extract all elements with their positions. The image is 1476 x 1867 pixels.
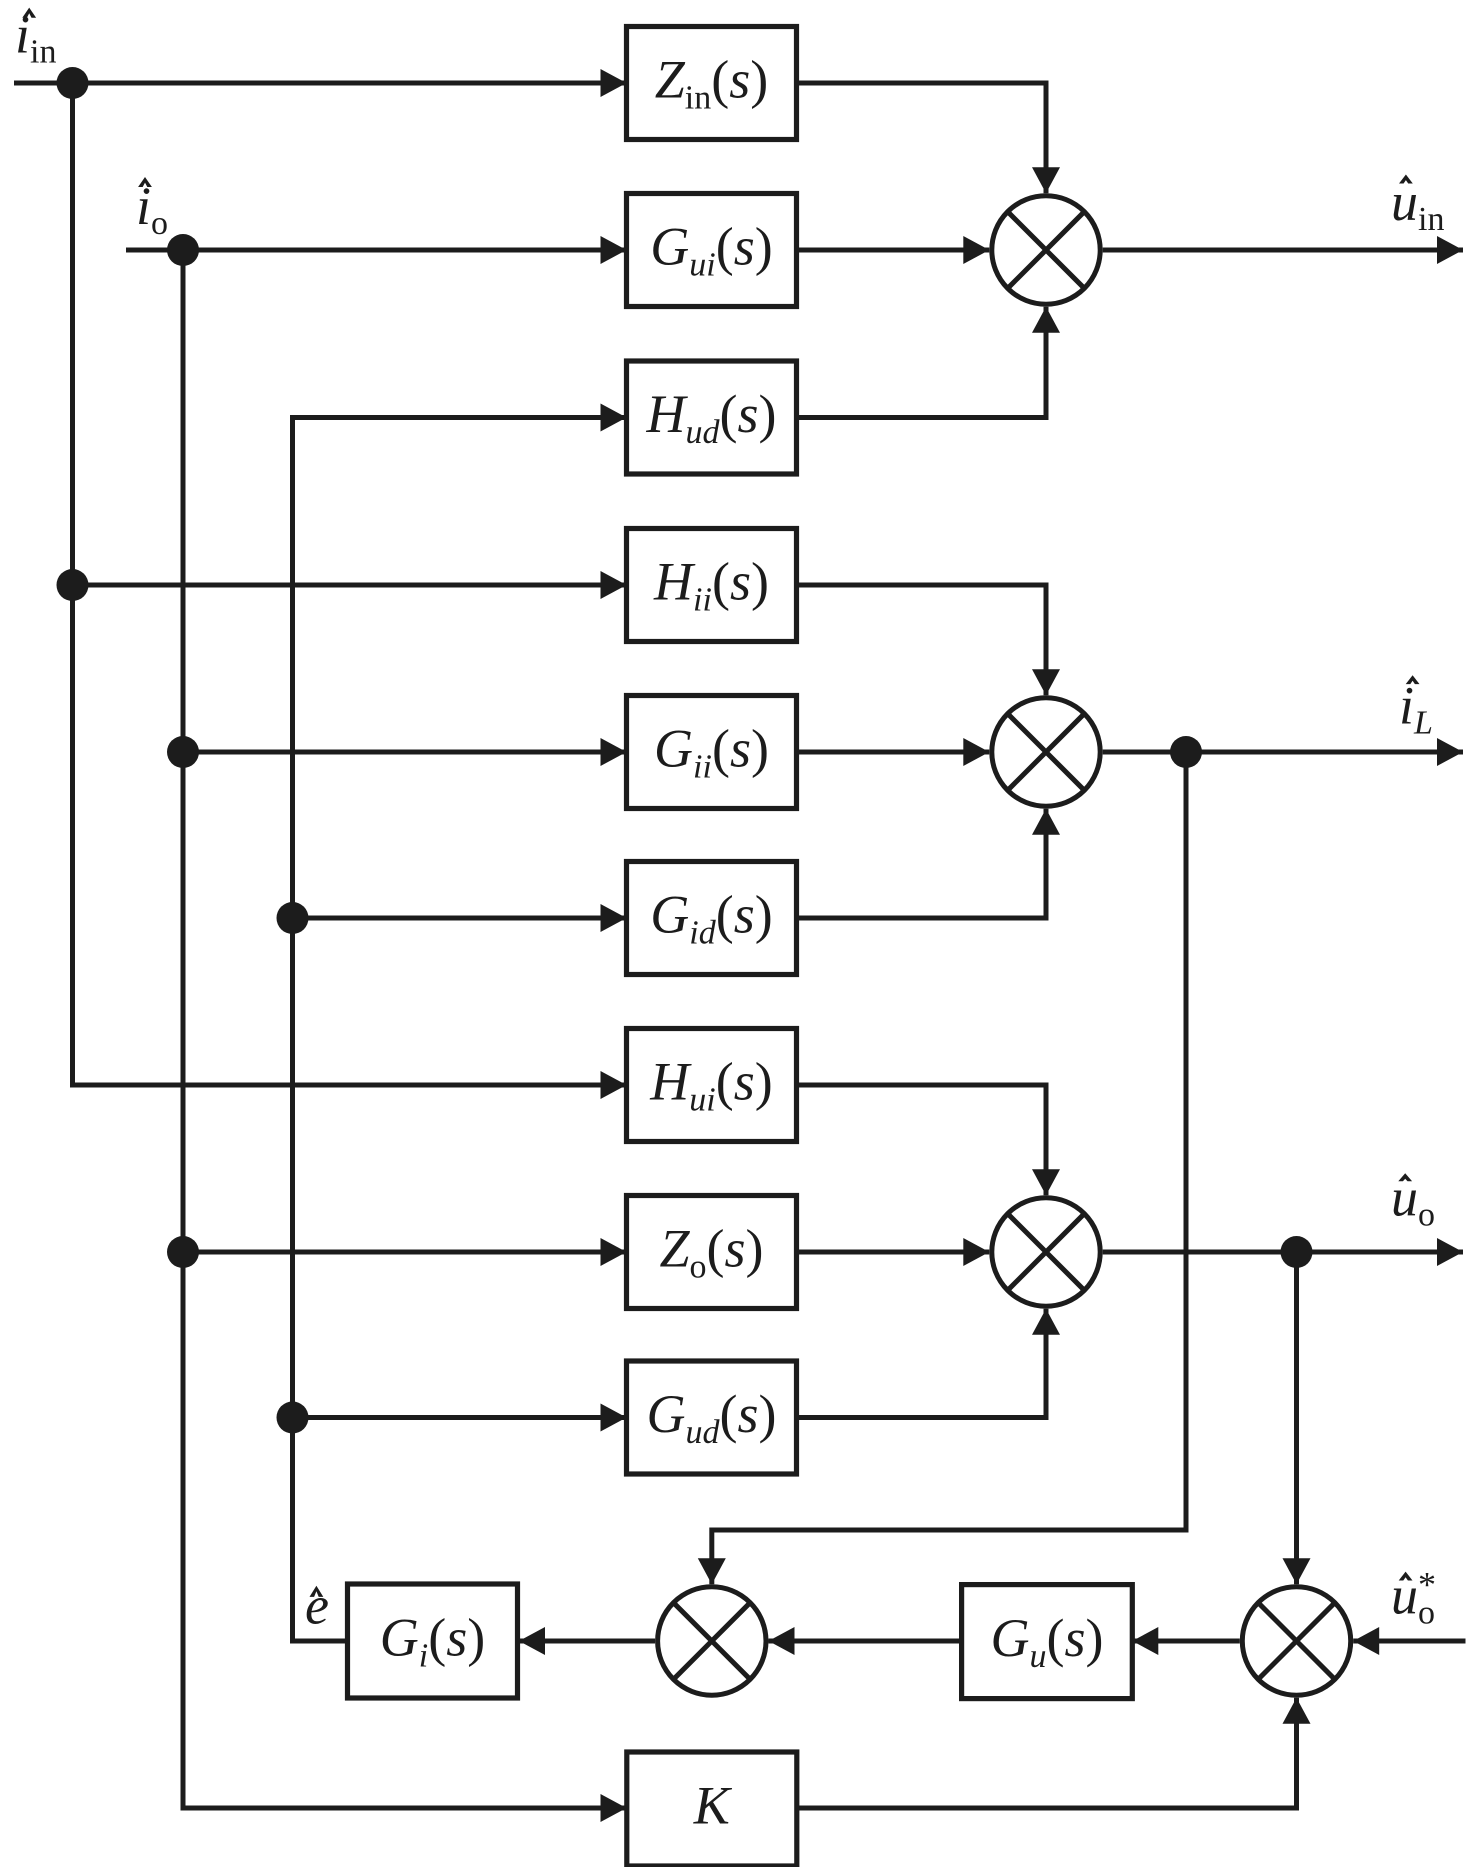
- wire u_o_ref input to S5 right: [1353, 1627, 1465, 1655]
- summing junction S5 voltage error: [1242, 1587, 1350, 1695]
- block H_ii(s): [627, 529, 797, 642]
- wire G_ud output to S3 bottom: [797, 1309, 1061, 1418]
- block G_ud(s): [627, 1361, 797, 1474]
- label i_in input signal: [15, 5, 56, 71]
- svg-text:Gi(s): Gi(s): [380, 1608, 485, 1675]
- summing junction S3 u_o: [992, 1198, 1100, 1306]
- wire Z_in output to S1 top: [797, 83, 1061, 193]
- label i_L output signal: [1399, 675, 1433, 741]
- node e_hat to G_ud tap: [277, 1402, 309, 1434]
- wire Z_o output to S3 left: [797, 1238, 990, 1266]
- wire i_in input to Z_in: [14, 69, 627, 97]
- wire S2 output i_L: [1103, 738, 1463, 766]
- label e_hat error signal: [305, 1575, 329, 1635]
- wire S3 output u_o: [1103, 1238, 1463, 1266]
- wire K output to S5 bottom: [797, 1698, 1311, 1808]
- block H_ui(s): [627, 1029, 797, 1142]
- block G_i(s) current controller: [348, 1584, 518, 1698]
- wire i_L feedback to S4 top: [698, 752, 1186, 1584]
- block Z_in(s): [627, 27, 797, 140]
- block K gain: [627, 1752, 797, 1866]
- wire H_ui output to S3 top: [797, 1085, 1061, 1195]
- label i_o input signal: [136, 176, 168, 242]
- wire S4 output to G_i: [519, 1627, 655, 1655]
- node i_in to H_ii tap: [57, 569, 89, 601]
- label u_o_ref reference signal: [1391, 1565, 1436, 1632]
- wire G_ui output to S1 left: [797, 236, 990, 264]
- block G_ui(s): [627, 194, 797, 307]
- wire G_u output to S4 right: [769, 1627, 962, 1655]
- wire e_hat trunk G_i output to H_ud: [293, 404, 627, 1642]
- label u_o output signal: [1391, 1168, 1435, 1234]
- node i_o junction: [167, 234, 199, 266]
- wire S1 output u_in: [1103, 236, 1463, 264]
- wire u_o feedback to S5 top: [1283, 1252, 1311, 1584]
- wire e_hat branch to G_id: [293, 904, 627, 932]
- block G_id(s): [627, 862, 797, 975]
- wire i_o vertical trunk to K: [183, 250, 627, 1822]
- node i_L output tap: [1170, 736, 1202, 768]
- summing junction S1 u_in: [992, 196, 1100, 304]
- block H_ud(s): [627, 361, 797, 474]
- wire i_in vertical trunk to H_ui: [73, 83, 627, 1099]
- node i_o to G_ii tap: [167, 736, 199, 768]
- wire G_ii output to S2 left: [797, 738, 990, 766]
- wire i_o branch to G_ii: [183, 738, 627, 766]
- svg-text:Gii(s): Gii(s): [654, 719, 769, 786]
- summing junction S4 current error: [658, 1587, 766, 1695]
- block G_ii(s): [627, 696, 797, 809]
- svg-text:*: *: [1418, 1565, 1436, 1605]
- wire S5 output to G_u: [1132, 1627, 1240, 1655]
- wire i_o branch to Z_o: [183, 1238, 627, 1266]
- wire i_in branch to H_ii: [73, 571, 627, 599]
- node i_o to Z_o tap: [167, 1236, 199, 1268]
- svg-text:Zo(s): Zo(s): [659, 1219, 763, 1286]
- svg-text:K: K: [693, 1776, 733, 1836]
- node u_o output tap: [1281, 1236, 1313, 1268]
- block Z_o(s): [627, 1196, 797, 1309]
- node i_in junction: [57, 67, 89, 99]
- svg-text:Gu(s): Gu(s): [990, 1608, 1103, 1675]
- wire e_hat branch to G_ud: [293, 1404, 627, 1432]
- label u_in output signal: [1391, 172, 1444, 238]
- wire G_id output to S2 bottom: [797, 809, 1061, 918]
- svg-text:Hii(s): Hii(s): [653, 552, 769, 619]
- node e_hat to G_id tap: [277, 902, 309, 934]
- summing junction S2 i_L: [992, 698, 1100, 806]
- wire i_o input to G_ui: [126, 236, 627, 264]
- svg-text:Zin(s): Zin(s): [655, 50, 768, 117]
- block G_u(s) voltage controller: [962, 1585, 1133, 1699]
- svg-text:e: e: [305, 1575, 329, 1635]
- wire H_ud output to S1 bottom: [797, 307, 1061, 418]
- wire H_ii output to S2 top: [797, 585, 1061, 695]
